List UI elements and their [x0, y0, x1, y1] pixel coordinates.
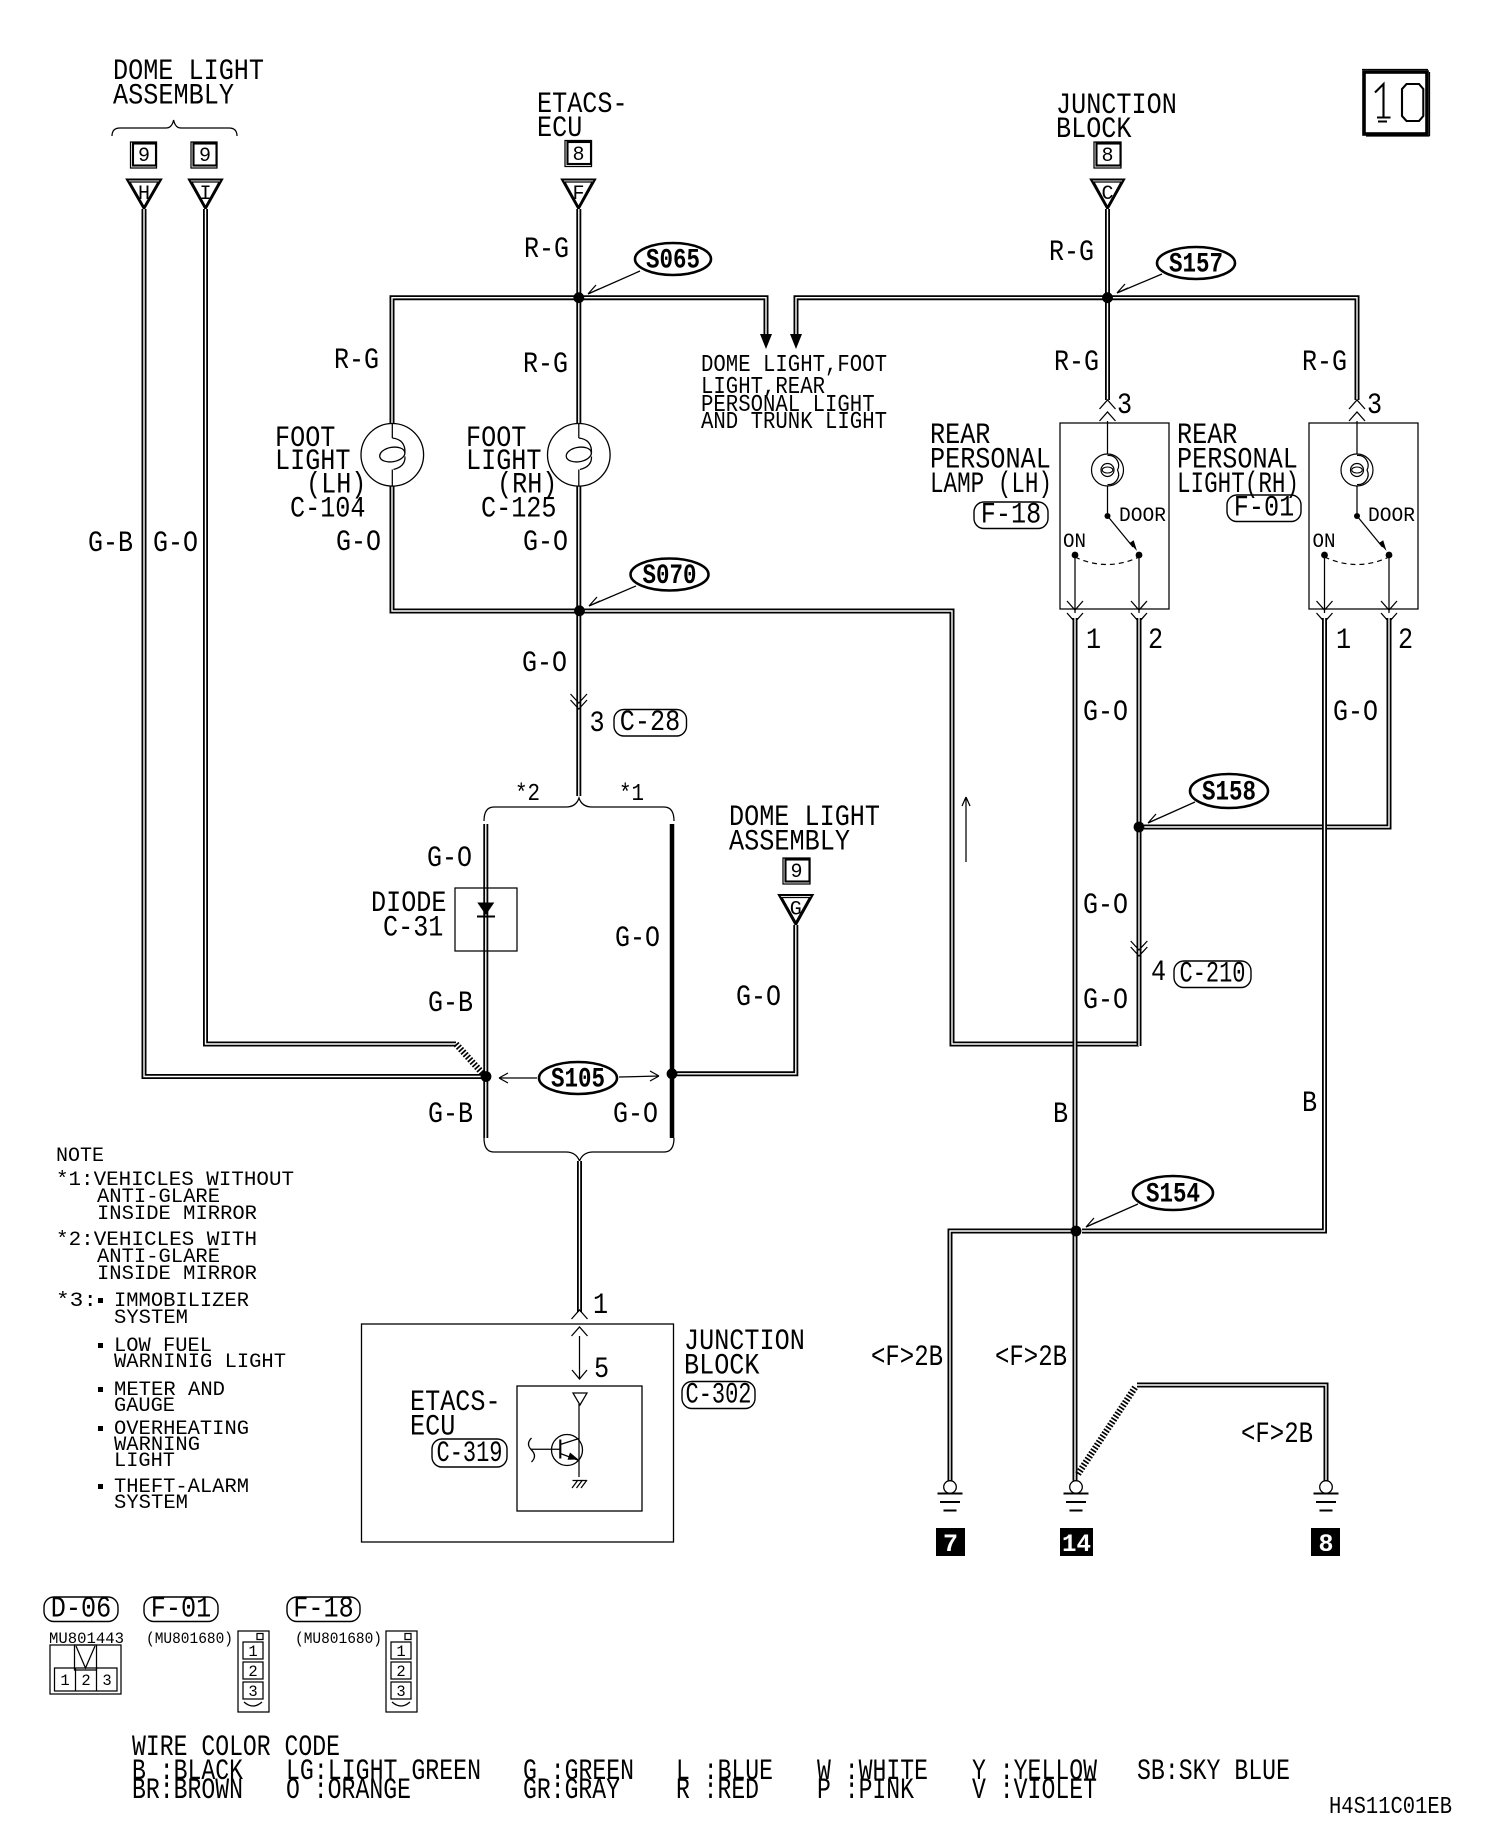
connector badge F-01 (bottom) [144, 1593, 218, 1627]
svg-text:SB:SKY BLUE: SB:SKY BLUE [1137, 1755, 1290, 1789]
transistor Q (ETACS-ECU output) [529, 1404, 583, 1477]
junction dot S105 right [667, 1068, 678, 1079]
LH door switch [1072, 513, 1143, 613]
ground symbol 7 [938, 1481, 963, 1511]
svg-text:14: 14 [1062, 1530, 1091, 1559]
svg-text:C-28: C-28 [620, 706, 680, 740]
chevrons into LH lamp box top [1100, 400, 1116, 421]
svg-text:I: I [199, 183, 211, 206]
label REAR PERSONAL LIGHT(RH) [1177, 419, 1299, 502]
svg-text:G-O: G-O [736, 981, 781, 1015]
connector triangle H [127, 180, 161, 210]
connector badge F-18 [974, 499, 1048, 533]
splice callout S158 [1148, 774, 1268, 823]
svg-text:3: 3 [1367, 389, 1382, 423]
svg-text:5: 5 [594, 1353, 609, 1387]
svg-text:(MU801680): (MU801680) [146, 1630, 233, 1648]
foot light RH lamp C-125 [548, 424, 611, 487]
svg-text:ON: ON [1313, 531, 1336, 554]
svg-text:GR:GRAY: GR:GRAY [523, 1774, 620, 1808]
svg-text:3: 3 [102, 1672, 111, 1690]
svg-text:S158: S158 [1202, 778, 1256, 809]
svg-text:<F>2B: <F>2B [1241, 1418, 1313, 1452]
svg-text:ON: ON [1063, 531, 1086, 554]
RH door switch [1321, 513, 1392, 613]
wire B from RH pin 1 down then left to S154 [1082, 618, 1325, 1231]
svg-text:G-O: G-O [1083, 984, 1128, 1018]
wire from S154 left then down to ground 7 [950, 1231, 1071, 1481]
wire from RH pin 2 down then left to S158 [1144, 618, 1389, 827]
splice callout S157 [1117, 247, 1235, 293]
svg-text:F-18: F-18 [293, 1593, 353, 1627]
wire R-G from junction block C down through S157 to LH lamp [1105, 209, 1110, 400]
svg-text:S070: S070 [643, 561, 697, 592]
junction dot S065 [573, 292, 584, 303]
hatched diagonal splice from I wire to S105 junction [456, 1044, 485, 1076]
rear personal lamp LH box [1060, 423, 1169, 609]
connector box 8 (junction block) [1094, 142, 1121, 168]
connector C-28 pass-through chevrons [571, 694, 588, 709]
svg-text:*3:: *3: [56, 1290, 97, 1313]
svg-text:INSIDE MIRROR: INSIDE MIRROR [97, 1263, 257, 1286]
svg-text:H: H [138, 183, 150, 206]
wire R-G from ETACS F down through S065 to dome brace [576, 209, 581, 796]
svg-text:<F>2B: <F>2B [871, 1341, 943, 1375]
arrowhead down (left of pair) [760, 334, 772, 349]
connector badge F-18 (bottom) [287, 1593, 360, 1627]
svg-text:SYSTEM: SYSTEM [114, 1492, 188, 1515]
connector F-18 pin view [386, 1631, 417, 1712]
wire G-O *2 branch (through diode) [483, 824, 488, 1138]
transistor emitter ground hatch [572, 1480, 587, 1488]
svg-text:S105: S105 [551, 1065, 605, 1096]
ground symbol 8 [1314, 1481, 1339, 1511]
svg-text:G-O: G-O [153, 527, 198, 561]
svg-text:S157: S157 [1169, 250, 1223, 281]
arrowhead down (right of pair) [790, 334, 802, 349]
label JUNCTION BLOCK (top) [1056, 89, 1177, 147]
svg-text:R-G: R-G [1054, 346, 1099, 380]
wire color code table [132, 1731, 1290, 1808]
svg-text:2: 2 [248, 1663, 257, 1681]
svg-text:AND TRUNK LIGHT: AND TRUNK LIGHT [701, 409, 887, 436]
label DOME LIGHT ASSEMBLY (middle right) [729, 801, 880, 860]
svg-text:LAMP (LH): LAMP (LH) [930, 468, 1052, 502]
svg-text:G-O: G-O [615, 922, 660, 956]
splice callout S154 [1086, 1176, 1213, 1227]
label FOOT LIGHT (LH) C-104 [275, 422, 366, 527]
connector badge C-302 [682, 1379, 755, 1413]
svg-text:8: 8 [572, 144, 584, 167]
connector C-210 pass-through chevrons [1131, 941, 1148, 956]
wire from S157 right then down to RH lamp [1108, 298, 1358, 400]
svg-text:F-18: F-18 [981, 499, 1041, 533]
RH lamp bulb [1341, 421, 1373, 513]
connector triangle G [779, 895, 813, 925]
svg-text:G: G [790, 899, 802, 922]
wire stem from merge brace down to junction block [577, 1161, 582, 1312]
svg-text:ASSEMBLY: ASSEMBLY [729, 826, 850, 860]
ETACS-ECU inner box [517, 1386, 642, 1511]
svg-text:B: B [1302, 1087, 1317, 1121]
label ETACS-ECU (top) [537, 88, 628, 146]
svg-text:1: 1 [248, 1643, 257, 1661]
splice callout S070 [589, 559, 709, 607]
svg-text:(MU801680): (MU801680) [295, 1630, 382, 1648]
wire G-O *1 branch (thick) [670, 824, 675, 1138]
svg-text:<F>2B: <F>2B [995, 1341, 1067, 1375]
svg-text:G-B: G-B [428, 987, 473, 1021]
wire G-O from I triangle down then right [206, 209, 457, 1044]
svg-text:G-O: G-O [427, 842, 472, 876]
label FOOT LIGHT (RH) C-125 [466, 422, 557, 527]
label JUNCTION BLOCK (C-302) [684, 1325, 805, 1384]
svg-text:S065: S065 [646, 246, 700, 277]
connector box 9 (dome light assembly G) [783, 858, 810, 884]
wire G-O from G triangle down then left to S105 right junction [677, 925, 796, 1074]
junction dot S070 [574, 605, 585, 616]
connector D-06 pin view [50, 1645, 121, 1694]
chevrons into RH lamp box top [1349, 400, 1365, 421]
svg-text:B: B [1053, 1098, 1068, 1132]
svg-text:R-G: R-G [334, 344, 379, 378]
svg-text:SYSTEM: SYSTEM [114, 1307, 188, 1330]
svg-text:2: 2 [1398, 624, 1413, 658]
svg-text:C-31: C-31 [383, 912, 443, 946]
svg-text:G-O: G-O [1333, 696, 1378, 730]
label DOME LIGHT ASSEMBLY (top left) [113, 55, 264, 114]
label DIODE C-31 [371, 887, 447, 946]
svg-text:NOTE: NOTE [56, 1145, 104, 1168]
chevrons out of RH lamp box bottom [1317, 601, 1398, 622]
foot light LH lamp C-104 [361, 424, 424, 487]
ground number box 8 [1311, 1528, 1340, 1559]
ground number box 14 [1060, 1528, 1093, 1559]
svg-text:WARNINIG LIGHT: WARNINIG LIGHT [114, 1351, 286, 1374]
connector triangle C [1091, 180, 1124, 210]
note text dome light foot light rear personal light and trunk light [701, 352, 887, 436]
svg-text:V :VIOLET: V :VIOLET [972, 1774, 1097, 1808]
svg-text:*2: *2 [515, 781, 540, 808]
diode C-31 box [455, 888, 517, 951]
junction block C-302 box [362, 1324, 674, 1542]
wire from S157 left to down-arrow [796, 298, 1108, 336]
svg-text:INSIDE MIRROR: INSIDE MIRROR [97, 1203, 257, 1226]
svg-text:C-210: C-210 [1180, 958, 1246, 992]
svg-text:C-319: C-319 [437, 1437, 503, 1471]
chevrons into junction block [572, 1310, 588, 1336]
svg-text:G-O: G-O [336, 526, 381, 560]
svg-text:R :RED: R :RED [676, 1774, 759, 1808]
svg-text:S154: S154 [1146, 1180, 1200, 1211]
connector badge D-06 [44, 1593, 118, 1627]
wire from S065 right to down-arrow [579, 298, 766, 336]
junction dot S158 [1134, 822, 1145, 833]
connector badge F-01 [1227, 492, 1301, 526]
svg-text:G-O: G-O [523, 526, 568, 560]
connector badge C-319 [432, 1437, 507, 1471]
svg-text:7: 7 [943, 1530, 958, 1559]
svg-text:1: 1 [593, 1289, 608, 1323]
connector triangle I [189, 180, 222, 210]
svg-text:8: 8 [1101, 145, 1113, 168]
svg-text:F: F [572, 183, 584, 206]
svg-text:R-G: R-G [523, 348, 568, 382]
merging brace above junction block stem [484, 1138, 674, 1161]
svg-text:4: 4 [1151, 956, 1166, 990]
wire horizontal from S065 to left foot light LH and down to S070 [392, 298, 579, 611]
rear personal lamp RH box [1309, 423, 1418, 609]
svg-text:F-01: F-01 [151, 1593, 211, 1627]
svg-text:DOOR: DOOR [1368, 505, 1415, 528]
label REAR PERSONAL LAMP (LH) [930, 419, 1052, 502]
svg-text:3: 3 [248, 1683, 257, 1701]
wire from S070 right then down to lower horizontal [580, 611, 1140, 1044]
svg-text:2: 2 [1148, 624, 1163, 658]
svg-text:3: 3 [1117, 389, 1132, 423]
svg-text:ASSEMBLY: ASSEMBLY [113, 80, 234, 114]
label ETACS-ECU (bottom) [410, 1386, 501, 1445]
svg-text:2: 2 [81, 1672, 90, 1690]
connector box 9 (H) [131, 142, 157, 168]
svg-text:D-06: D-06 [51, 1593, 111, 1627]
wire with arrow to pin 5 inside junction block [572, 1336, 587, 1379]
wire G-O from LH pin 2 down through S158 to lower horizontal [1137, 618, 1142, 1046]
LH lamp bulb [1092, 421, 1124, 513]
svg-text:C: C [1101, 183, 1113, 206]
diode symbol [477, 903, 495, 917]
svg-text:LIGHT: LIGHT [114, 1450, 175, 1473]
svg-text:C-104: C-104 [290, 493, 366, 527]
svg-text:3: 3 [396, 1683, 405, 1701]
svg-text:1: 1 [1086, 624, 1101, 658]
svg-text:G-O: G-O [613, 1098, 658, 1132]
splice callout S105 with arrows [499, 1062, 659, 1096]
connector triangle F [562, 180, 595, 210]
svg-text:R-G: R-G [1302, 346, 1347, 380]
svg-text:2: 2 [396, 1663, 405, 1681]
svg-text:DOOR: DOOR [1119, 505, 1166, 528]
ground symbol 14 [1064, 1481, 1089, 1511]
splice callout S065 [588, 243, 711, 294]
svg-text:GAUGE: GAUGE [114, 1395, 175, 1418]
svg-text:H4S11C01EB: H4S11C01EB [1329, 1794, 1452, 1821]
svg-text:9: 9 [199, 145, 211, 168]
svg-text:P :PINK: P :PINK [817, 1774, 914, 1808]
svg-text:3: 3 [590, 707, 605, 741]
connector box 8 (ETACS) [565, 141, 592, 168]
svg-text:C-302: C-302 [686, 1379, 752, 1413]
wire B from LH pin 1 down through S154 to ground 14 [1073, 618, 1078, 1481]
svg-text:8: 8 [1318, 1530, 1333, 1559]
svg-text:G-O: G-O [522, 647, 567, 681]
connector box 9 (I) [191, 142, 217, 168]
wire G-B from H triangle down to S105 junction [144, 209, 483, 1077]
svg-text:G-O: G-O [1083, 889, 1128, 923]
svg-text:F-01: F-01 [1234, 492, 1294, 526]
svg-text:1: 1 [396, 1643, 405, 1661]
svg-text:1: 1 [60, 1672, 69, 1690]
svg-text:R-G: R-G [524, 233, 569, 267]
svg-text:R-G: R-G [1049, 236, 1094, 270]
brace over dome light assembly connectors [112, 120, 237, 136]
svg-text:G-B: G-B [88, 527, 133, 561]
connector badge C-28 [614, 706, 687, 740]
svg-text:BR:BROWN: BR:BROWN [132, 1774, 243, 1808]
ground number box 7 [936, 1528, 965, 1559]
connector F-01 pin view [238, 1631, 269, 1712]
svg-text:1: 1 [1336, 624, 1351, 658]
page number box 10 [1362, 70, 1430, 137]
junction dot S154 [1071, 1226, 1082, 1237]
direction arrow up (beside return wire) [962, 797, 970, 862]
svg-text:9: 9 [790, 861, 802, 884]
junction dot S157 [1102, 292, 1113, 303]
svg-text:G-O: G-O [1083, 696, 1128, 730]
svg-text:O :ORANGE: O :ORANGE [286, 1774, 411, 1808]
svg-text:*1: *1 [619, 781, 644, 808]
wire to ground 8 with hatched diagonal [1078, 1385, 1326, 1481]
svg-text:9: 9 [138, 145, 150, 168]
junction dot S105 left [481, 1071, 492, 1082]
pin triangle inside ETACS-ECU [573, 1393, 587, 1405]
svg-text:C-125: C-125 [481, 493, 557, 527]
connector badge C-210 [1174, 958, 1251, 992]
splitting brace below C-28 [484, 798, 674, 821]
chevrons out of LH lamp box bottom [1067, 601, 1147, 622]
NOTE text block [56, 1145, 294, 1515]
svg-text:G-B: G-B [428, 1098, 473, 1132]
